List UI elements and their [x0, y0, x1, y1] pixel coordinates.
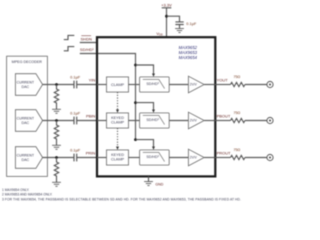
- svg-text:PRIN: PRIN: [86, 151, 96, 156]
- wire amp 1 to YOUT: [204, 84, 215, 86]
- svg-text:2V/V: 2V/V: [190, 156, 198, 160]
- wire C3 to pin PRIN: [77, 157, 97, 159]
- wire bus to filter 2: [136, 103, 154, 110]
- dashed clamp sync link 1-2: [117, 92, 119, 109]
- capacitor C1 0.1uF: [74, 81, 77, 89]
- wire C1 to pin YIN: [77, 84, 97, 86]
- svg-text:VDD: VDD: [156, 31, 163, 37]
- resistor 75 ohm ch1: [231, 82, 245, 86]
- node SD/HD bus ch2: [134, 101, 137, 104]
- wire C2 to pin PBIN: [77, 120, 97, 122]
- filter F2 SD/HD lowpass: [140, 113, 170, 128]
- svg-text:2 MAX9653 AND MAX9654 ONLY.: 2 MAX9653 AND MAX9654 ONLY.: [2, 193, 53, 197]
- capacitor C2 0.1uF: [74, 117, 77, 125]
- node VDD: [165, 15, 168, 18]
- wire clamp to filter 2: [129, 120, 140, 122]
- svg-text:SD/HD³: SD/HD³: [146, 118, 159, 122]
- svg-text:0.1µF: 0.1µF: [70, 75, 81, 80]
- SHDN input waveform: [64, 35, 75, 39]
- svg-text:CURRENT: CURRENT: [17, 116, 35, 120]
- wire PBOUT to back-termination resistor: [215, 120, 230, 122]
- svg-text:SD/HD³: SD/HD³: [146, 155, 159, 159]
- keyed clamp block ch3: [107, 150, 129, 165]
- op-amp A1 2V/V: [188, 76, 204, 93]
- connector jack PROUT: [267, 154, 273, 160]
- svg-text:PBIN: PBIN: [86, 114, 95, 119]
- pin SD/HD wire into chip bus: [80, 54, 136, 140]
- wire YOUT to back-termination resistor: [215, 84, 230, 86]
- svg-text:YIN: YIN: [89, 78, 96, 83]
- wire bus to filter 3: [136, 140, 154, 147]
- svg-text:0.1µF: 0.1µF: [70, 148, 81, 153]
- svg-text:DAC: DAC: [22, 158, 30, 162]
- svg-text:CLAMP: CLAMP: [111, 83, 125, 87]
- svg-text:SD/HD¹: SD/HD¹: [80, 47, 94, 52]
- resistor 75 ohm ch2: [231, 118, 245, 122]
- svg-text:2V/V: 2V/V: [190, 119, 198, 123]
- keyed clamp block ch2: [107, 113, 129, 128]
- wire filter 1 to amp 1: [169, 84, 188, 86]
- wire DAC2 to coupling cap: [43, 120, 74, 122]
- resistor R2 termination: [54, 121, 58, 146]
- clamp block ch1: [107, 77, 129, 92]
- svg-text:75Ω: 75Ω: [233, 111, 240, 115]
- wire resistor to jack ch1: [245, 84, 267, 86]
- ground C4: [175, 29, 184, 33]
- pin GND wire: [148, 176, 150, 181]
- svg-text:SD/HD³: SD/HD³: [146, 82, 159, 86]
- filter F1 SD/HD lowpass: [140, 77, 170, 92]
- wire amp 2 to PBOUT: [204, 120, 215, 122]
- node ch3: [55, 156, 58, 159]
- svg-text:CURRENT: CURRENT: [17, 80, 35, 84]
- svg-text:+3.3V: +3.3V: [161, 2, 172, 7]
- svg-text:MAX9654: MAX9654: [179, 55, 198, 60]
- node SD/HD bus ch1: [134, 64, 137, 67]
- svg-text:CURRENT: CURRENT: [17, 153, 35, 157]
- svg-text:DAC: DAC: [22, 121, 30, 125]
- IC U1 MAX9652/MAX9653/MAX9654: [97, 37, 215, 176]
- pin SHDN wire: [80, 42, 97, 44]
- svg-text:0.1µF: 0.1µF: [186, 21, 197, 26]
- current DAC 1: [15, 74, 42, 96]
- wire PROUT to back-termination resistor: [215, 157, 230, 159]
- svg-text:CLAMP: CLAMP: [111, 158, 125, 162]
- node ch1: [55, 83, 58, 86]
- dashed clamp sync link 2-3: [117, 128, 119, 146]
- resistor R3 termination: [54, 158, 58, 183]
- wire bus to filter 1: [136, 65, 154, 74]
- resistor 75 ohm ch3: [231, 155, 245, 159]
- wire filter 2 to amp 2: [169, 120, 188, 122]
- svg-text:75Ω: 75Ω: [233, 148, 240, 152]
- svg-text:0.1µF: 0.1µF: [70, 111, 81, 116]
- wire resistor to jack ch3: [245, 157, 267, 159]
- svg-text:MPEG DECODER: MPEG DECODER: [12, 60, 43, 64]
- node SD/HD bus ch3: [134, 138, 137, 141]
- ground GND: [144, 182, 153, 186]
- svg-text:1 MAX9654 ONLY.: 1 MAX9654 ONLY.: [2, 188, 30, 192]
- svg-text:2V/V: 2V/V: [190, 83, 198, 87]
- wire clamp to filter 3: [129, 157, 140, 159]
- connector jack PBOUT: [267, 117, 273, 123]
- node ch2: [55, 119, 58, 122]
- svg-text:PROUT: PROUT: [217, 151, 232, 156]
- wire VDD: [166, 8, 168, 37]
- svg-text:GND: GND: [155, 183, 163, 187]
- ground R3: [52, 182, 61, 186]
- wire DAC1 to coupling cap: [43, 84, 74, 86]
- op-amp A2 2V/V: [188, 112, 204, 129]
- capacitor C4 0.1uF bypass: [175, 22, 183, 25]
- SD/HD input waveform: [64, 47, 75, 51]
- wire DAC3 to coupling cap: [43, 157, 74, 159]
- wire amp 3 to PROUT: [204, 157, 215, 159]
- svg-text:PBOUT: PBOUT: [217, 114, 231, 119]
- ground R1: [52, 109, 61, 113]
- svg-text:3 FOR THE MAX9654, THE PASSBAN: 3 FOR THE MAX9654, THE PASSBAND IS SELEC…: [2, 197, 241, 201]
- resistor R1 termination: [54, 85, 58, 110]
- capacitor C3 0.1uF: [74, 154, 77, 162]
- wire PBIN to clamp 2: [97, 120, 107, 122]
- MPEG decoder box: [7, 56, 48, 176]
- ground R2: [52, 145, 61, 149]
- svg-text:75Ω: 75Ω: [233, 75, 240, 79]
- svg-text:YOUT: YOUT: [217, 78, 229, 83]
- current DAC 3: [15, 147, 42, 169]
- wire YIN to clamp 1: [97, 84, 107, 86]
- svg-text:KEYED: KEYED: [111, 116, 124, 120]
- svg-text:KEYED: KEYED: [111, 153, 124, 157]
- wire PRIN to clamp 3: [97, 157, 107, 159]
- op-amp A3 2V/V: [188, 149, 204, 166]
- wire filter 3 to amp 3: [169, 157, 188, 159]
- svg-text:CLAMP: CLAMP: [111, 121, 125, 125]
- current DAC 2: [15, 110, 42, 132]
- wire clamp to filter 1: [129, 84, 140, 86]
- connector jack YOUT: [267, 81, 273, 87]
- wire to bypass cap C4: [167, 16, 180, 22]
- svg-text:SHDN: SHDN: [81, 36, 92, 41]
- filter F3 SD/HD lowpass: [140, 150, 170, 165]
- wire resistor to jack ch2: [245, 120, 267, 122]
- svg-text:DAC: DAC: [22, 85, 30, 89]
